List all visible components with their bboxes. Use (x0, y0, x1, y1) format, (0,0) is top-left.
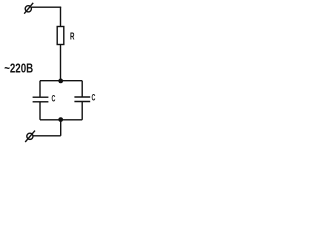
wire top rail (40, 80, 82, 82)
capacitor C (left) (33, 96, 49, 98)
wire resistor to node A (60, 45, 62, 81)
wire right branch lower (81, 102, 83, 120)
wire right branch down (81, 81, 83, 97)
terminal X2 (bottom return) (27, 133, 33, 139)
wire left branch down (39, 81, 41, 98)
wire top horizontal (31, 6, 61, 8)
terminal X1 (top input) (25, 6, 31, 12)
svg-text:~220B: ~220B (4, 62, 33, 76)
wire left branch lower (39, 102, 41, 120)
wire top vertical to resistor (60, 7, 62, 26)
svg-text:C: C (52, 93, 56, 104)
capacitor C (right) (74, 96, 90, 98)
wire bottom rail (40, 119, 82, 121)
wire bottom horizontal (33, 135, 61, 137)
svg-text:C: C (92, 92, 96, 103)
node B junction dot (58, 117, 63, 122)
resistor R (57, 27, 64, 45)
node A junction dot (58, 79, 63, 84)
wire node B down (60, 120, 62, 136)
svg-text:R: R (70, 31, 75, 43)
